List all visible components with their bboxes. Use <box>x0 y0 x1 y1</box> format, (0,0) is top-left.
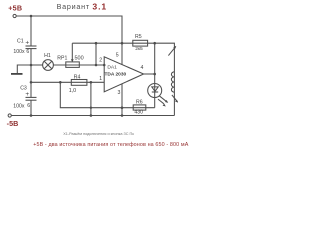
svg-text:R5: R5 <box>135 34 142 40</box>
svg-text:2: 2 <box>99 58 102 64</box>
svg-text:H1: H1 <box>44 53 51 59</box>
svg-text:Х1-Разьём подключения и кнопка: Х1-Разьём подключения и кнопка ЗС Пк <box>63 132 134 136</box>
svg-text:2к5: 2к5 <box>135 46 143 52</box>
svg-text:6: 6 <box>26 49 29 55</box>
svg-text:R4: R4 <box>74 75 81 81</box>
svg-text:+: + <box>25 91 29 98</box>
svg-text:1,0: 1,0 <box>69 88 77 94</box>
svg-text:C1: C1 <box>17 39 24 45</box>
svg-text:5: 5 <box>116 52 119 58</box>
svg-text:100х: 100х <box>13 49 25 55</box>
svg-text:3: 3 <box>118 90 121 96</box>
svg-text:3.1: 3.1 <box>92 2 107 12</box>
svg-text:RP1: RP1 <box>57 56 67 62</box>
svg-text:4: 4 <box>141 65 144 71</box>
svg-text:-5В: -5В <box>7 119 19 128</box>
svg-text:+5В: +5В <box>8 3 22 12</box>
svg-text:1: 1 <box>99 76 102 82</box>
svg-text:+5В - два источника питания от: +5В - два источника питания от телефонов… <box>33 142 189 148</box>
svg-text:100х: 100х <box>13 103 25 109</box>
svg-text:500: 500 <box>75 56 84 62</box>
svg-text:+: + <box>25 40 29 47</box>
svg-text:6: 6 <box>27 103 30 109</box>
svg-text:430: 430 <box>134 110 143 116</box>
svg-text:R6: R6 <box>136 100 143 106</box>
svg-text:Вариант: Вариант <box>57 2 90 11</box>
svg-text:TDA 2030: TDA 2030 <box>105 71 127 77</box>
svg-text:DA1: DA1 <box>107 65 117 71</box>
